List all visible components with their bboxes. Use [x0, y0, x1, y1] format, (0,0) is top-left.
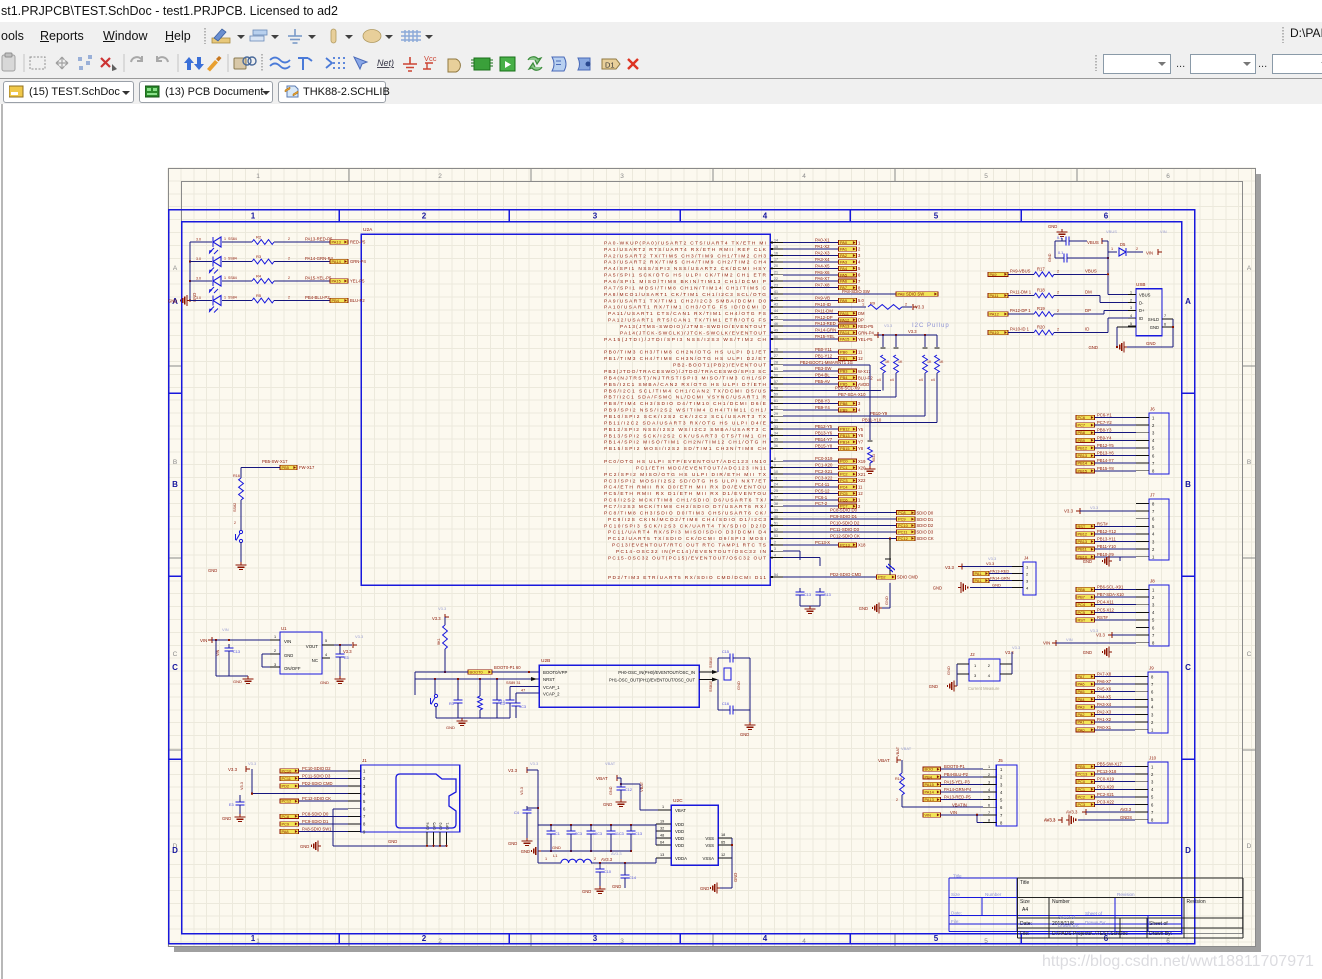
- svg-text:GND: GND: [933, 586, 942, 591]
- svg-text:11: 11: [774, 476, 778, 480]
- svg-text:R20: R20: [1037, 325, 1045, 330]
- svg-text:53: 53: [774, 534, 778, 538]
- resistor R9 PA9/PA10 rows: [783, 295, 925, 309]
- regulator U1: [200, 626, 364, 685]
- svg-text:GP1: GP1: [445, 822, 449, 830]
- svg-text:VIN: VIN: [1146, 251, 1153, 256]
- svg-text:PC12-SDIO CK: PC12-SDIO CK: [302, 796, 331, 801]
- svg-text:PA10-ID: PA10-ID: [815, 302, 831, 307]
- svg-text:X18: X18: [858, 543, 866, 548]
- svg-text:GND: GND: [284, 653, 293, 658]
- svg-text:USB: USB: [1136, 282, 1145, 287]
- J1 gnd rail: [300, 809, 448, 852]
- svg-text:Drawn By:: Drawn By:: [1085, 920, 1106, 925]
- svg-text:PB4-BLU-P2: PB4-BLU-P2: [305, 295, 330, 300]
- svg-text:3: 3: [593, 212, 598, 221]
- svg-text:L1: L1: [553, 853, 558, 858]
- svg-text:C4: C4: [514, 811, 519, 815]
- svg-text:PC7-Y2: PC7-Y2: [1097, 420, 1112, 425]
- svg-text:PB15: PB15: [840, 446, 850, 451]
- svg-text:35: 35: [774, 438, 778, 442]
- right V3.3 rail block: [508, 761, 539, 846]
- svg-text:Revision: Revision: [1187, 899, 1206, 905]
- svg-text:PC5: PC5: [840, 491, 848, 496]
- svg-text:R3: R3: [449, 702, 454, 706]
- svg-text:PB7-SDA-X10: PB7-SDA-X10: [838, 392, 866, 397]
- svg-text:PC12-SDIO CK: PC12-SDIO CK: [830, 533, 860, 538]
- svg-text:RED-P5: RED-P5: [858, 324, 874, 329]
- svg-text:PB14: PB14: [840, 439, 850, 444]
- svg-text:PB7/I2C1 SDA/FSMC NL/DCMI VSYN: PB7/I2C1 SDA/FSMC NL/DCMI VSYNC/USART1 R: [604, 395, 767, 401]
- U2A port-B rows: [783, 347, 937, 451]
- svg-text:PA9-VBUS: PA9-VBUS: [1010, 268, 1031, 273]
- svg-text:V3.3: V3.3: [508, 768, 518, 773]
- svg-text:E3: E3: [344, 656, 349, 660]
- svg-text:PA14-GRN: PA14-GRN: [990, 576, 1010, 581]
- svg-text:PA12: PA12: [840, 317, 849, 322]
- svg-text:A: A: [1247, 265, 1252, 272]
- svg-text:PA0: PA0: [840, 240, 848, 245]
- svg-text:4: 4: [325, 653, 327, 657]
- svg-text:SS810: SS810: [709, 657, 713, 668]
- svg-text:PA15: PA15: [332, 279, 341, 284]
- svg-text:VBUS: VBUS: [1139, 292, 1151, 297]
- svg-text:PB3-SW: PB3-SW: [815, 366, 832, 371]
- U2A port-A net wires and ports: [783, 238, 861, 291]
- svg-text:PB5-AV: PB5-AV: [815, 379, 830, 384]
- VBAT resistor branch: [878, 746, 983, 807]
- I2C pullup resistors: [874, 323, 950, 423]
- svg-text:PC15-OSC32 OUT(PC15)/EVENTOUT/: PC15-OSC32 OUT(PC15)/EVENTOUT/OSC32 OUT: [608, 556, 766, 562]
- svg-text:2: 2: [905, 302, 907, 306]
- svg-text:PC11-SDIO D3: PC11-SDIO D3: [302, 773, 331, 778]
- svg-text:PB11/I2C2 SDA/USART3 RX/OTG HS: PB11/I2C2 SDA/USART3 RX/OTG HS ULPI D4/E: [604, 420, 766, 426]
- svg-text:PD2: PD2: [878, 574, 886, 579]
- svg-text:56: 56: [774, 373, 778, 377]
- svg-text:4: 4: [763, 934, 768, 943]
- svg-text:PA6: PA6: [840, 279, 847, 284]
- svg-text:41: 41: [774, 290, 778, 294]
- svg-text:SDIO SW: SDIO SW: [906, 292, 924, 297]
- svg-text:V3.3: V3.3: [240, 782, 244, 790]
- svg-text:1K: 1K: [939, 360, 944, 364]
- svg-text:GND: GND: [1083, 559, 1092, 564]
- svg-text:c4: c4: [931, 378, 935, 382]
- connector J2: [929, 645, 1021, 692]
- svg-text:Y6: Y6: [858, 433, 864, 438]
- svg-text:V3.3: V3.3: [520, 787, 524, 795]
- svg-text:PC3/SPI2 MOSI/I2S2 SD/OTG HS U: PC3/SPI2 MOSI/I2S2 SD/OTG HS ULPI NXT/ET: [604, 478, 766, 484]
- svg-text:VSS: VSS: [705, 843, 714, 848]
- svg-text:PC11: PC11: [898, 529, 907, 534]
- svg-text:VBAT: VBAT: [901, 746, 912, 751]
- svg-text:38: 38: [774, 502, 778, 506]
- U2A port-C rows: [783, 456, 934, 547]
- connector J8: [1043, 579, 1169, 658]
- svg-text:NC: NC: [312, 658, 318, 663]
- svg-text:PC10-SDIO D2: PC10-SDIO D2: [302, 766, 331, 771]
- sheet border frame: [169, 169, 1256, 947]
- svg-text:VIN: VIN: [1066, 637, 1073, 642]
- svg-text:J1: J1: [362, 758, 367, 763]
- svg-text:1: 1: [545, 857, 547, 861]
- svg-text:12: 12: [858, 356, 863, 361]
- svg-text:PB14: PB14: [1078, 461, 1088, 466]
- svg-text:PC13/EVENTOUT/RTC OUT RTC TAMP: PC13/EVENTOUT/RTC OUT RTC TAMP1 RTC TS: [612, 543, 766, 549]
- svg-text:c4: c4: [877, 378, 881, 382]
- crystal Y2 32k: [783, 537, 895, 575]
- svg-text:PB5/I2C1 SMBA/CAN2 RX/OTG HS U: PB5/I2C1 SMBA/CAN2 RX/OTG HS ULPI D7/ETH: [604, 382, 767, 388]
- svg-text:GRN-P4: GRN-P4: [350, 259, 366, 264]
- svg-text:D: D: [172, 846, 178, 855]
- svg-text:GND: GND: [388, 839, 397, 844]
- svg-text:PA13(JTMS-SWDIO)/JTMS-SWDIO/EV: PA13(JTMS-SWDIO)/JTMS-SWDIO/EVENTOUT: [620, 324, 766, 330]
- svg-text:11: 11: [858, 485, 863, 490]
- blue title block ghost labels: [951, 874, 1135, 926]
- usb caps and gnd: [1048, 224, 1167, 295]
- svg-text:SS84: SS84: [228, 276, 237, 280]
- svg-text:VCAP_2: VCAP_2: [543, 692, 560, 697]
- svg-text:PH1-OSC_OUT(PH1)/EVENTOUT/OSC_: PH1-OSC_OUT(PH1)/EVENTOUT/OSC_OUT: [609, 678, 695, 683]
- svg-text:C13: C13: [635, 832, 642, 836]
- svg-text:PB12-Y12: PB12-Y12: [1097, 529, 1117, 534]
- svg-text:GND: GND: [946, 666, 951, 675]
- svg-text:Date:: Date:: [951, 911, 962, 916]
- svg-text:PB2-BOOT1-MMA#INT1 1G: PB2-BOOT1-MMA#INT1 1G: [800, 360, 853, 365]
- svg-text:PC2: PC2: [840, 472, 848, 477]
- svg-text:2: 2: [1057, 309, 1059, 313]
- svg-text:c4: c4: [890, 378, 894, 382]
- svg-text:PC8-SDIO D0: PC8-SDIO D0: [302, 811, 329, 816]
- svg-text:PA15-YEL: PA15-YEL: [815, 334, 835, 339]
- svg-text:PC9: PC9: [898, 517, 906, 522]
- svg-text:PC5-X12: PC5-X12: [1097, 607, 1115, 612]
- svg-text:D-: D-: [1139, 300, 1144, 305]
- svg-text:V3.3: V3.3: [1090, 505, 1099, 510]
- svg-text:J6: J6: [1150, 407, 1155, 412]
- svg-text:GND: GND: [884, 596, 889, 605]
- svg-text:GP5: GP5: [432, 822, 436, 830]
- svg-text:PB8: PB8: [840, 401, 847, 406]
- svg-text:V3.3: V3.3: [945, 565, 954, 570]
- svg-text:7: 7: [1164, 314, 1166, 318]
- VBAT cap branch: [596, 761, 658, 810]
- svg-text:PA12/USART1 RTS/CAN1 TX/TIM1 E: PA12/USART1 RTS/CAN1 TX/TIM1 ETR/OTG FS: [608, 318, 766, 324]
- svg-text:BOOT0/VPP: BOOT0/VPP: [543, 670, 567, 675]
- svg-text:Y8: Y8: [858, 446, 864, 451]
- svg-text:GND: GND: [222, 816, 231, 821]
- svg-text:4: 4: [802, 173, 806, 180]
- svg-text:PA1/USART2 RTS/UART4 RX/ETH RM: PA1/USART2 RTS/UART4 RX/ETH RMII REF CLK: [604, 247, 767, 253]
- svg-text:PC13-X18: PC13-X18: [1097, 769, 1117, 774]
- svg-text:PC7/I2S3 MCK/TIM8 CH2/SDIO D7/: PC7/I2S3 MCK/TIM8 CH2/SDIO D7/USART6 RX/: [604, 504, 767, 510]
- resistors R17-R20: [988, 266, 1136, 335]
- svg-text:1: 1: [862, 302, 864, 306]
- svg-text:Drawn By:: Drawn By:: [1058, 923, 1079, 928]
- svg-text:SS84: SS84: [228, 257, 237, 261]
- svg-text:PA7: PA7: [1078, 674, 1085, 679]
- svg-text:2: 2: [988, 773, 990, 777]
- svg-text:AV3.3: AV3.3: [1044, 817, 1056, 822]
- connector J10: [1044, 756, 1168, 826]
- svg-text:PB9-Y4: PB9-Y4: [1097, 435, 1112, 440]
- svg-text:PC9: PC9: [282, 821, 290, 826]
- svg-text:PC6: PC6: [1078, 415, 1086, 420]
- svg-text:PB3(JTDO/TRACESWO)/JTDO/TRACES: PB3(JTDO/TRACESWO)/JTDO/TRACESWO/SPI3 SC: [604, 369, 767, 375]
- connector J7: [1064, 493, 1169, 567]
- svg-text:PB5: PB5: [1078, 764, 1085, 769]
- svg-text:1K: 1K: [898, 360, 903, 364]
- svg-text:PC5: PC5: [1078, 610, 1086, 615]
- svg-text:SS84: SS84: [228, 296, 237, 300]
- svg-text:PA0: PA0: [1078, 727, 1086, 732]
- svg-text:PB15/SPI2 MOSI/I2S2 SD/TIM1 CH: PB15/SPI2 MOSI/I2S2 SD/TIM1 CH3N/TIM8 CH: [604, 446, 767, 452]
- LED indicator circuits D1-D4: [168, 235, 366, 313]
- svg-text:Current Measure: Current Measure: [968, 686, 1000, 691]
- svg-text:DP: DP: [858, 317, 864, 322]
- svg-text:VBAT: VBAT: [878, 758, 890, 763]
- svg-text:PC4: PC4: [1078, 602, 1086, 607]
- svg-text:PB6-SCL-X91: PB6-SCL-X91: [1097, 585, 1124, 590]
- J1 left V3.3 branch: [228, 761, 348, 795]
- svg-text:2: 2: [288, 296, 290, 300]
- svg-text:X20: X20: [858, 465, 866, 470]
- svg-text:Revision: Revision: [1117, 892, 1135, 897]
- svg-text:PC4-11: PC4-11: [815, 482, 830, 487]
- svg-text:S13: S13: [824, 593, 831, 597]
- svg-text:X22: X22: [858, 478, 866, 483]
- svg-text:VIN: VIN: [216, 649, 220, 656]
- svg-text:4: 4: [1130, 314, 1132, 318]
- blue template title block: [949, 878, 1182, 932]
- svg-text:PB12-Y5: PB12-Y5: [815, 424, 833, 429]
- svg-text:VDDA: VDDA: [675, 856, 687, 861]
- svg-text:U1: U1: [281, 626, 287, 631]
- svg-text:PB11-Y10: PB11-Y10: [862, 418, 882, 423]
- svg-text:SS84: SS84: [228, 237, 237, 241]
- svg-text:PC0-X19: PC0-X19: [1097, 777, 1115, 782]
- svg-text:C13: C13: [804, 593, 811, 597]
- svg-text:BLU-P2: BLU-P2: [858, 375, 873, 380]
- svg-text:PA11-DM: PA11-DM: [815, 308, 833, 313]
- U2A pin stubs and numbers: [770, 238, 783, 578]
- svg-text:1: 1: [224, 257, 226, 261]
- svg-text:PB6-SCL-X9: PB6-SCL-X9: [835, 385, 860, 390]
- svg-text:VBAT: VBAT: [675, 808, 686, 813]
- svg-text:Size: Size: [1020, 899, 1030, 905]
- svg-text:ID: ID: [1139, 316, 1143, 321]
- svg-text:14: 14: [774, 238, 778, 242]
- svg-text:GND: GND: [300, 844, 309, 849]
- svg-text:PC0: PC0: [1078, 779, 1086, 784]
- svg-text:PA6: PA6: [1078, 682, 1085, 687]
- svg-text:V3.3: V3.3: [1064, 509, 1074, 514]
- svg-text:PA14-GRN-P4: PA14-GRN-P4: [305, 256, 333, 261]
- svg-text:PA6-X7: PA6-X7: [815, 276, 830, 281]
- svg-text:D+: D+: [1139, 308, 1145, 313]
- svg-text:PB1-Y12: PB1-Y12: [815, 353, 833, 358]
- svg-text:PC5-12: PC5-12: [815, 488, 830, 493]
- svg-text:9013: 9013: [872, 454, 876, 462]
- svg-text:PA4-X5: PA4-X5: [815, 263, 830, 268]
- svg-text:PB14/SPI2 MISO/TIM1 CH2N/TIM12: PB14/SPI2 MISO/TIM1 CH2N/TIM12 CH1/OTG H: [604, 440, 767, 446]
- svg-text:2: 2: [422, 212, 427, 221]
- svg-text:File:: File:: [1020, 931, 1029, 937]
- svg-text:PC8-SDIO D0: PC8-SDIO D0: [830, 508, 858, 513]
- svg-text:R19: R19: [1037, 306, 1045, 311]
- svg-text:7: 7: [988, 811, 990, 815]
- svg-text:DM: DM: [858, 311, 865, 316]
- svg-text:PC10-SDIO D2: PC10-SDIO D2: [830, 521, 860, 526]
- svg-text:PC4: PC4: [840, 484, 848, 489]
- svg-text:34: 34: [774, 431, 778, 435]
- svg-text:PC9-SDIO D1: PC9-SDIO D1: [830, 514, 858, 519]
- svg-text:J10: J10: [1149, 756, 1157, 761]
- svg-text:PA15: PA15: [840, 337, 849, 342]
- svg-text:PC2: PC2: [1078, 794, 1086, 799]
- svg-text:AV3.3: AV3.3: [611, 851, 622, 856]
- svg-text:PA13-RED-P5: PA13-RED-P5: [305, 237, 333, 242]
- svg-text:D5: D5: [1120, 242, 1126, 247]
- svg-text:PA10-ID 1: PA10-ID 1: [1010, 327, 1030, 332]
- svg-text:GND: GND: [859, 606, 868, 611]
- svg-text:PC13: PC13: [1078, 772, 1088, 777]
- svg-text:U2A: U2A: [363, 227, 373, 233]
- svg-text:2: 2: [1130, 298, 1132, 302]
- svg-text:11C3: 11C3: [615, 832, 624, 836]
- svg-text:GND: GND: [1048, 224, 1057, 229]
- svg-text:BOOT0: BOOT0: [470, 670, 484, 675]
- svg-text:GND: GND: [1088, 345, 1098, 350]
- sheet grid: [168, 168, 1256, 947]
- svg-text:12: 12: [721, 853, 725, 857]
- svg-text:B: B: [172, 480, 178, 489]
- svg-text:2: 2: [422, 934, 427, 943]
- svg-text:6: 6: [1164, 323, 1166, 327]
- svg-text:PH0-OSC_IN(PH0)/EVENTOUT/OSC_I: PH0-OSC_IN(PH0)/EVENTOUT/OSC_IN: [618, 670, 695, 675]
- svg-text:V3.3: V3.3: [228, 767, 238, 772]
- svg-text:2: 2: [1057, 269, 1059, 273]
- svg-text:VIN: VIN: [284, 639, 291, 644]
- svg-text:8: 8: [988, 818, 990, 822]
- svg-text:PA8-SDIO SW1: PA8-SDIO SW1: [302, 827, 332, 832]
- svg-text:GND: GND: [929, 684, 938, 689]
- svg-text:PA12: PA12: [990, 312, 999, 317]
- U2A PA11-PA15 ports: [783, 308, 874, 341]
- svg-text:13: 13: [660, 853, 664, 857]
- svg-text:GND: GND: [1048, 253, 1052, 262]
- svg-text:PB8-Y3: PB8-Y3: [815, 398, 830, 403]
- svg-text:PB1/TIM3 CH4/TIM8 CH3N/OTG HS: PB1/TIM3 CH4/TIM8 CH3N/OTG HS ULPI D2/ET: [604, 356, 766, 362]
- svg-text:Y5: Y5: [858, 427, 864, 432]
- svg-text:PC3: PC3: [1078, 802, 1086, 807]
- svg-text:3: 3: [988, 780, 990, 784]
- svg-text:2: 2: [234, 521, 236, 525]
- svg-text:PC11-SDIO D3: PC11-SDIO D3: [830, 527, 860, 532]
- svg-text:R5: R5: [256, 293, 262, 298]
- svg-text:V3.3: V3.3: [248, 761, 257, 766]
- svg-text:V3.3: V3.3: [355, 634, 364, 639]
- svg-text:1: 1: [1111, 247, 1113, 251]
- svg-text:V3.3: V3.3: [438, 606, 447, 611]
- svg-text:VIN: VIN: [1043, 640, 1050, 645]
- svg-text:PB13-Y6: PB13-Y6: [815, 431, 833, 436]
- svg-text:Title: Title: [1020, 880, 1029, 886]
- svg-text:DP: DP: [1085, 308, 1091, 313]
- wire PD2 SDIO CMD: [783, 572, 918, 614]
- svg-text:5: 5: [1130, 322, 1132, 326]
- svg-text:C12: C12: [625, 788, 632, 792]
- svg-text:PB10/SPI2 SCK/I2S2 CK/I2C2 SCL: PB10/SPI2 SCK/I2S2 CK/I2C2 SCL/USART3 TX: [604, 414, 767, 420]
- svg-text:1K: 1K: [927, 360, 932, 364]
- svg-text:YEL-P5: YEL-P5: [858, 337, 873, 342]
- svg-text:X19: X19: [858, 459, 866, 464]
- svg-text:VSS: VSS: [705, 836, 714, 841]
- svg-text:PA11: PA11: [840, 311, 849, 316]
- svg-text:PA9/USART1 TX/TIM1 CH2/I2C3 SM: PA9/USART1 TX/TIM1 CH2/I2C3 SMBA/DCMI D0: [604, 298, 766, 304]
- svg-text:SDIO D0: SDIO D0: [917, 510, 934, 515]
- svg-text:A4: A4: [1022, 907, 1028, 913]
- svg-text:VDD: VDD: [675, 836, 684, 841]
- svg-text:BOO: BOO: [925, 767, 934, 772]
- svg-text:VBAT: VBAT: [895, 746, 900, 757]
- svg-text:GND: GND: [552, 845, 561, 850]
- svg-text:3: 3: [593, 934, 598, 943]
- svg-text:PC4-X11: PC4-X11: [1097, 600, 1114, 605]
- svg-text:1: 1: [274, 635, 276, 639]
- svg-text:VBUS: VBUS: [1106, 229, 1117, 234]
- svg-text:PB14-Y7: PB14-Y7: [815, 437, 833, 442]
- svg-text:0.1: 0.1: [1058, 251, 1063, 255]
- svg-text:V3.3: V3.3: [1012, 645, 1021, 650]
- svg-text:R2: R2: [256, 235, 262, 240]
- svg-text:9C3: 9C3: [519, 705, 526, 709]
- svg-text:PC13: PC13: [840, 542, 850, 547]
- svg-text:PC3-X22: PC3-X22: [815, 476, 833, 481]
- sheet drop shadow: [1256, 174, 1261, 952]
- svg-text:PA14: PA14: [332, 259, 342, 264]
- svg-text:V3.3: V3.3: [432, 616, 441, 621]
- svg-text:2: 2: [1057, 291, 1059, 295]
- svg-text:PB8: PB8: [1078, 430, 1085, 435]
- svg-text:R16: R16: [233, 474, 240, 478]
- svg-text:PA13: PA13: [925, 797, 934, 802]
- svg-text:PA2-X3: PA2-X3: [1097, 710, 1112, 715]
- svg-text:27: 27: [774, 354, 778, 358]
- svg-text:C16: C16: [722, 702, 729, 706]
- svg-text:PA11: PA11: [990, 293, 999, 298]
- svg-text:R17: R17: [1037, 266, 1045, 271]
- svg-text:PA5-X6: PA5-X6: [815, 270, 830, 275]
- svg-text:PB12: PB12: [1078, 445, 1088, 450]
- svg-text:E3: E3: [229, 803, 234, 807]
- svg-text:PA5-X6: PA5-X6: [1097, 687, 1112, 692]
- svg-text:File:: File:: [951, 919, 960, 924]
- svg-text:PA14-GRN-P4: PA14-GRN-P4: [944, 787, 972, 792]
- svg-text:GND: GND: [320, 680, 329, 685]
- svg-text:PC9/I2S CKIN/MCO2/TIM8 CH4/SDI: PC9/I2S CKIN/MCO2/TIM8 CH4/SDIO D1/I2C3: [608, 517, 766, 523]
- black sheet title block: [1018, 878, 1244, 938]
- svg-text:AV3.3: AV3.3: [1066, 810, 1078, 815]
- svg-text:SS89 31: SS89 31: [506, 681, 521, 685]
- svg-text:36: 36: [774, 444, 778, 448]
- svg-text:VSSA: VSSA: [703, 856, 715, 861]
- svg-text:A: A: [1185, 297, 1191, 306]
- svg-text:58: 58: [774, 386, 778, 390]
- svg-text:PA15-YEL-P5: PA15-YEL-P5: [305, 276, 332, 281]
- U2A pin name text: [604, 240, 767, 580]
- svg-text:PC1/ETH MDC/EVENTOUT/ADC123 IN: PC1/ETH MDC/EVENTOUT/ADC123 IN11: [636, 465, 766, 471]
